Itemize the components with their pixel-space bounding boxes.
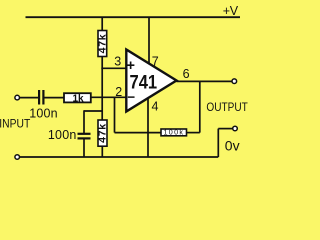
- wire: R3 to pin 2: [91, 96, 126, 98]
- 0v label: [225, 137, 240, 153]
- +V label: [223, 4, 239, 18]
- svg-text:6: 6: [183, 67, 190, 81]
- pin 7 label: [152, 54, 159, 68]
- svg-text:100k: 100k: [164, 127, 185, 136]
- svg-text:47k: 47k: [96, 34, 108, 54]
- capacitor C2 100n (bias decoupling): [78, 133, 91, 157]
- +V supply rail: [26, 16, 241, 18]
- svg-text:2: 2: [115, 85, 122, 99]
- svg-text:741: 741: [130, 71, 158, 93]
- INPUT label: [0, 118, 30, 131]
- pin 3 label: [114, 54, 121, 68]
- op-amp U1 741: [126, 50, 176, 112]
- capacitor C1 100n (input): [38, 90, 45, 105]
- wire: tee from bias node to decoupling cap: [84, 110, 103, 133]
- wire: pin 3 to bias divider node: [101, 67, 126, 69]
- wire: output (pin 6): [177, 80, 232, 82]
- svg-text:INPUT: INPUT: [0, 118, 30, 131]
- pin 2 label: [115, 85, 122, 99]
- svg-text:+V: +V: [223, 4, 239, 18]
- svg-text:7: 7: [152, 54, 159, 68]
- C2 value label 100n: [48, 128, 77, 142]
- resistor R4 100k (feedback): [161, 127, 187, 136]
- svg-text:47k: 47k: [97, 123, 109, 143]
- 0v terminal: [233, 126, 238, 131]
- pin 4 label: [152, 100, 159, 114]
- wire: 0v terminal to 0v rail: [218, 129, 232, 157]
- svg-text:OUTPUT: OUTPUT: [206, 101, 248, 114]
- wire: input terminal to C1: [20, 97, 38, 99]
- output terminal: [232, 79, 237, 84]
- svg-text:1k: 1k: [72, 93, 84, 104]
- OUTPUT label: [206, 101, 248, 114]
- pin 4 wire (op-amp to 0v rail): [147, 98, 149, 158]
- 0v rail terminal (bottom left): [15, 155, 20, 160]
- 0v supply rail: [20, 156, 219, 158]
- svg-text:3: 3: [114, 54, 121, 68]
- C1 value label 100n: [29, 107, 58, 121]
- wire: bias divider vertical (crosses pin2 wire): [101, 68, 103, 121]
- wire: feedback riser from pin2 node: [114, 97, 116, 133]
- resistor R1 47k (upper bias): [96, 17, 108, 69]
- input terminal: [15, 95, 20, 100]
- svg-text:4: 4: [152, 100, 159, 114]
- svg-text:100n: 100n: [48, 128, 77, 142]
- resistor R3 1k (input): [64, 93, 91, 104]
- pin 6 label: [183, 67, 190, 81]
- svg-text:0v: 0v: [225, 137, 240, 153]
- wire: feedback horizontal to R4: [115, 132, 162, 134]
- wire: C1 to R3: [45, 97, 65, 99]
- pin 7 wire (V+ supply to op-amp): [148, 17, 150, 65]
- resistor R2 47k (lower bias): [97, 120, 109, 157]
- svg-text:100n: 100n: [29, 107, 58, 121]
- wire: R4 to output riser: [187, 81, 200, 133]
